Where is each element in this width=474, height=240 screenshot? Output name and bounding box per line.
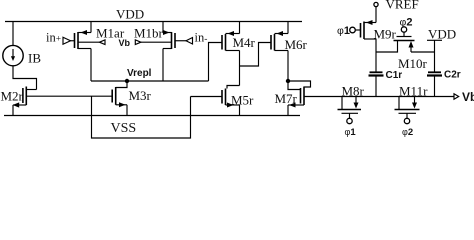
wire VDD to C2r top [434, 40, 436, 72]
svg-text:VDD: VDD [428, 27, 456, 42]
wire M1ar drain to Vrepl [90, 49, 92, 82]
transistor M5r [222, 86, 240, 116]
node Vrepl wire [91, 80, 209, 82]
transistor M11r dummy switch [395, 97, 420, 124]
svg-text:M4r: M4r [233, 35, 256, 50]
svg-text:M8r: M8r [342, 84, 365, 99]
terminal Vb output [454, 90, 474, 104]
svg-text:C1r: C1r [386, 70, 403, 81]
wire M4r drain to M6r gate [240, 43, 272, 67]
terminal in- [175, 31, 207, 45]
terminal phi1 of M9r [337, 25, 361, 37]
svg-text:φ1: φ1 [345, 127, 357, 138]
wire M6r drain to output node [287, 51, 289, 82]
svg-text:in-: in- [195, 31, 208, 45]
svg-text:M7r: M7r [275, 91, 298, 106]
terminal VREF [374, 2, 378, 22]
transistor M1ar [75, 30, 92, 49]
svg-text:VREF: VREF [386, 0, 419, 12]
wire gate route below VSS [92, 97, 191, 139]
junction Vrepl/M3r [125, 79, 129, 83]
svg-text:M3r: M3r [129, 88, 152, 103]
transistor M9r [361, 20, 377, 39]
transistor M1br [163, 30, 175, 49]
wire M1br source to VDD [162, 22, 164, 33]
capacitor C1r [369, 72, 384, 96]
svg-text:φ2: φ2 [400, 17, 413, 29]
svg-text:Vrepl: Vrepl [127, 68, 152, 79]
wire output node to M7r gate [288, 81, 301, 90]
wire output node to M7r drain [288, 81, 311, 87]
transistor M7r [288, 87, 304, 116]
transistor M10r [394, 37, 435, 53]
junction first-stage output [286, 79, 290, 83]
svg-text:Vb: Vb [462, 90, 474, 104]
bulk terminal Vb of M1ar [78, 40, 105, 45]
svg-text:M2r: M2r [1, 89, 24, 104]
svg-text:VSS: VSS [111, 121, 137, 136]
wire IB to M2r drain [13, 66, 37, 90]
wire M4r source to VDD [239, 22, 241, 34]
svg-text:M6r: M6r [285, 37, 308, 52]
svg-text:IB: IB [28, 51, 41, 66]
svg-text:M9r: M9r [374, 27, 397, 42]
wire VDD rail to IB [12, 22, 14, 46]
wire M5r gate [191, 96, 223, 98]
capacitor C2r [427, 72, 442, 96]
transistor M3r [112, 81, 127, 116]
svg-text:φ2: φ2 [402, 127, 413, 138]
svg-text:M5r: M5r [231, 93, 254, 108]
terminal phi2 of M10r [400, 17, 413, 37]
wire to M10r left [376, 41, 398, 53]
wire M6r source to VDD [287, 22, 289, 34]
transistor M8r dummy switch [338, 97, 362, 124]
power rail VSS [4, 115, 300, 117]
wire M4r gate to Vrepl [209, 43, 223, 82]
svg-text:M11r: M11r [399, 84, 428, 99]
wire M4r drain to M5r drain [239, 51, 241, 86]
power rail VDD [5, 21, 302, 23]
power terminal VDD right [427, 27, 456, 42]
wire mirror gates M2r-M3r [26, 95, 112, 97]
svg-text:VDD: VDD [116, 6, 144, 21]
bulk terminal Vb of M1br [135, 40, 171, 45]
svg-text:M10r: M10r [398, 56, 428, 71]
svg-text:in+: in+ [46, 31, 61, 45]
wire M9r drain to C1r top [375, 39, 377, 72]
transistor M2r [13, 87, 37, 116]
wire M1br drain to Vrepl [162, 49, 164, 82]
wire output line to Vb [304, 96, 454, 98]
svg-text:Vb: Vb [119, 38, 131, 48]
terminal in+ [46, 31, 75, 45]
transistor M4r [222, 31, 240, 51]
svg-text:M1br: M1br [134, 26, 164, 41]
wire M1ar source to VDD [90, 22, 92, 33]
svg-text:φ1: φ1 [337, 25, 350, 37]
current source IB [3, 45, 23, 65]
transistor M6r [271, 31, 288, 51]
svg-text:C2r: C2r [444, 70, 461, 81]
